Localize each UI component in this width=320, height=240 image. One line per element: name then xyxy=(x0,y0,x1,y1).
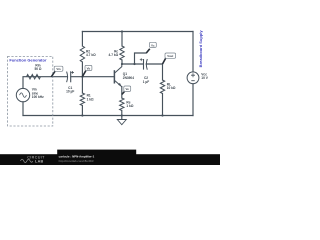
flag Vb xyxy=(82,65,92,76)
junction node collector xyxy=(121,63,123,65)
junction node base xyxy=(81,76,83,78)
svg-text:LAB: LAB xyxy=(35,160,44,164)
svg-text:http:∕∕circuitlab.com∕c8sn5t3: http:∕∕circuitlab.com∕c8sn5t3 xyxy=(59,159,94,163)
svg-text:Vb: Vb xyxy=(87,66,91,70)
capacitor C1 xyxy=(67,71,71,82)
svg-text:Function Generator: Function Generator xyxy=(9,57,47,62)
junction node Re bottom xyxy=(121,114,123,116)
source Vcc xyxy=(187,72,199,84)
label C2 polarity plus xyxy=(140,58,143,61)
svg-text:1 kΩ: 1 kΩ xyxy=(87,97,94,101)
junction node Vc stub xyxy=(133,63,135,65)
label Re value xyxy=(126,100,133,108)
wire base rail (C1/R2/R1 node to transistor base) xyxy=(23,77,114,89)
svg-text:Vc: Vc xyxy=(151,43,155,47)
wire R1 stubs xyxy=(81,77,83,116)
label Vcc value xyxy=(201,72,208,80)
svg-text:10 V: 10 V xyxy=(201,76,208,80)
svg-text:10 µF: 10 µF xyxy=(66,90,74,94)
wire Rc stubs xyxy=(121,32,123,65)
svg-text:1 kΩ: 1 kΩ xyxy=(126,104,133,108)
label Vin source value xyxy=(32,88,44,99)
flag Vout xyxy=(163,53,176,64)
wire top rail xyxy=(82,31,193,33)
source Vin (sine) xyxy=(16,88,29,101)
junction node top rail / Rc xyxy=(121,30,123,32)
svg-text:Vin: Vin xyxy=(56,67,61,71)
svg-text:10 kΩ: 10 kΩ xyxy=(167,86,176,90)
ground xyxy=(117,120,126,125)
label Q1 value xyxy=(123,72,134,80)
svg-text:2N3904: 2N3904 xyxy=(123,76,134,80)
svg-text:4.7 kΩ: 4.7 kΩ xyxy=(109,53,119,57)
svg-text:50 Ω: 50 Ω xyxy=(35,67,42,71)
wire bottom rail xyxy=(23,115,193,117)
function generator enclosure box xyxy=(8,56,53,126)
transistor Q1 xyxy=(114,64,121,87)
wire RL to bottom rail xyxy=(162,94,164,116)
label R2 value xyxy=(86,49,96,57)
resistor Rin xyxy=(27,75,41,79)
svg-text:4.7 kΩ: 4.7 kΩ xyxy=(86,53,96,57)
capacitor C2 xyxy=(144,59,148,70)
label R1 value xyxy=(87,94,94,102)
label Rc value xyxy=(109,49,119,57)
flag Ve xyxy=(122,86,131,95)
svg-text:Breadboard Supply: Breadboard Supply xyxy=(198,30,203,68)
label C2 value xyxy=(143,76,149,84)
resistor Re xyxy=(120,98,124,111)
svg-text:100 kHz: 100 kHz xyxy=(32,95,44,99)
resistor RL xyxy=(160,80,164,94)
resistor Rc xyxy=(120,46,124,60)
label C1 value xyxy=(66,86,74,94)
wire emitter to Re and ground xyxy=(121,87,123,120)
label Rin value xyxy=(35,63,42,71)
label RL value xyxy=(167,82,176,90)
svg-text:1 µF: 1 µF xyxy=(143,80,149,84)
svg-text:Vout: Vout xyxy=(167,54,173,58)
wire Vin source to bottom rail xyxy=(22,102,24,116)
wire Vc stub xyxy=(135,53,147,64)
wire R2 stubs xyxy=(81,32,83,77)
wire collector node to C2 xyxy=(122,63,143,65)
footer text box xyxy=(57,150,136,156)
label C1 polarity plus xyxy=(71,71,74,74)
transistor Q1 emitter arrow xyxy=(118,83,122,87)
wire right supply rail xyxy=(192,32,194,116)
resistor R1 xyxy=(80,93,84,106)
footer logo sine xyxy=(21,159,33,162)
svg-text:Ve: Ve xyxy=(126,87,130,91)
footer bar xyxy=(0,154,220,165)
junction node RL bottom xyxy=(161,114,163,116)
flag Vin xyxy=(51,66,63,77)
flag Vc xyxy=(146,42,156,53)
wire C2 to RL corner xyxy=(146,64,162,80)
junction node R1 bottom xyxy=(81,114,83,116)
resistor R2 xyxy=(80,46,84,62)
